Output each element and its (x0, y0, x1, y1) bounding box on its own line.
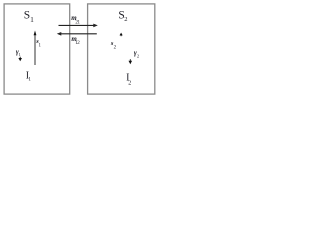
svg-text:2: 2 (124, 16, 127, 23)
svg-text:1: 1 (28, 77, 31, 83)
arrow s1 (I1 to S1, upward) (34, 35, 36, 65)
svg-text:2: 2 (128, 80, 131, 86)
arrowhead down (gamma2 flow out) (129, 59, 131, 61)
arrow m21 (left box to right box) (59, 24, 95, 26)
svg-text:12: 12 (75, 41, 80, 46)
arrowhead up (s2 flow in) (120, 35, 122, 36)
svg-text:21: 21 (75, 20, 80, 25)
arrow m12 (right box to left box) (60, 33, 97, 35)
box S2/I2 (right patch) (88, 4, 155, 94)
arrowhead down (gamma1 flow out) (19, 57, 21, 59)
svg-text:1: 1 (39, 43, 42, 48)
svg-text:1: 1 (19, 52, 21, 57)
svg-text:2: 2 (137, 53, 139, 58)
svg-text:2: 2 (114, 46, 117, 51)
svg-text:1: 1 (30, 15, 34, 24)
box S1/I1 (left patch) (4, 4, 70, 94)
